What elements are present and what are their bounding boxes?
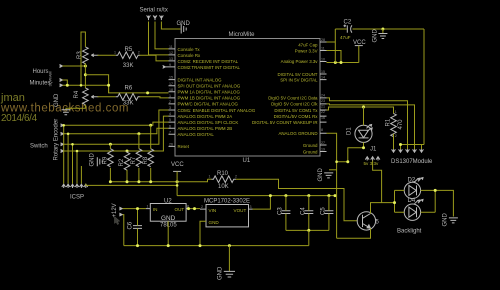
svg-text:3: 3 [169,106,171,110]
svg-text:U1: U1 [243,158,251,164]
svg-text:ANALOG GROUND: ANALOG GROUND [278,131,317,136]
svg-text:VCC: VCC [171,162,184,168]
pin switch [61,150,65,153]
svg-text:+12V: +12V [112,203,118,217]
svg-text:PWM/C DIGITAL INT ANALOG: PWM/C DIGITAL INT ANALOG [178,102,239,107]
svg-text:J1: J1 [370,147,377,153]
wire D1 cathode to gnd trunk [337,142,364,161]
wire R9 top stub [109,144,111,148]
svg-text:1: 1 [169,94,171,98]
pin Minutes [60,79,64,82]
svg-text:ANALOG DIGITAL PWM 2B: ANALOG DIGITAL PWM 2B [178,126,233,131]
svg-text:OUT: OUT [175,207,185,212]
svg-text:2: 2 [235,175,237,179]
svg-text:GND: GND [161,215,176,222]
svg-text:Minutes: Minutes [30,80,51,86]
watermark jman [0,92,129,124]
pin SQW [60,84,64,87]
U1 left pin names [178,47,256,149]
svg-text:Rotary Encoder: Rotary Encoder [54,119,60,161]
pin Hours [60,65,64,68]
svg-text:24: 24 [321,93,325,97]
svg-text:Hours: Hours [33,69,49,75]
ground symbol backlight [449,218,458,223]
svg-text:2: 2 [138,51,140,55]
U1 left pin stubs [169,49,176,146]
svg-text:1: 1 [395,110,397,114]
resistor R7 [136,149,142,167]
svg-text:Serial rx/tx: Serial rx/tx [140,8,168,14]
svg-text:33K: 33K [123,63,134,69]
svg-text:DIGITAL 5V COUNT WAKEUP IR: DIGITAL 5V COUNT WAKEUP IR [252,120,318,125]
svg-text:VOUT: VOUT [234,208,247,213]
trimmer resistor R4 [83,88,99,105]
svg-text:14: 14 [321,76,325,80]
wire resistor bottoms to VCC rail [110,168,150,182]
U1 pin numbers [169,38,325,152]
connector J serial pins [147,15,164,20]
svg-text:GND: GND [218,266,224,280]
svg-text:9: 9 [169,63,171,67]
wire U1 COM1 Tx to D1 and R1 [327,107,394,114]
svg-text:Console Tx: Console Tx [178,47,201,52]
svg-text:2014/6/4: 2014/6/4 [1,113,38,124]
svg-text:COM2: RECEIVE INT DIGITAL: COM2: RECEIVE INT DIGITAL [178,59,239,64]
wire U2 OUT to MCP VIN [190,208,200,210]
svg-text:Reset: Reset [178,144,190,149]
wire R5 to COM2 RECEIVE [140,55,169,61]
svg-text:ANALOG DIGITAL SPI CLOCK: ANALOG DIGITAL SPI CLOCK [178,120,239,125]
wire row 74.8 to riser [85,75,108,93]
svg-text:4: 4 [169,112,171,116]
wire DS1307 pin5 stub [421,145,423,150]
pin encoder C [61,143,65,146]
wire switch to U1 [64,116,169,151]
svg-text:Ground: Ground [303,143,318,148]
svg-text:1: 1 [114,51,116,55]
wire encoder B to U1 [64,128,169,134]
VCC rail left [110,179,207,182]
svg-text:R10: R10 [217,171,229,177]
wire emitter down to gnd trunk [337,228,371,238]
wire encoder A to U1 [64,122,169,125]
svg-text:28: 28 [321,38,325,42]
svg-text:18: 18 [169,88,173,92]
svg-text:470: 470 [398,119,404,130]
transistor T5 [357,212,375,230]
svg-text:DIGITAL 5V COM1 Tx: DIGITAL 5V COM1 Tx [274,108,318,113]
wire J1 riser [373,161,382,203]
svg-text:GND: GND [443,213,449,227]
svg-text:VIN: VIN [209,208,217,213]
wire MCP GND to rail [200,221,206,244]
svg-text:MCP1702-3302E: MCP1702-3302E [204,198,250,204]
svg-text:Backlight: Backlight [397,229,422,235]
U1 right pin stubs [320,42,327,152]
IC U1 MicroMite [175,32,320,164]
wire VCC rail to R10 [208,178,212,180]
svg-text:22: 22 [321,110,325,114]
wire hairpin R3 top [81,32,85,85]
wire LED cathodes to gnd [421,190,454,216]
svg-text:2: 2 [395,134,397,138]
mouse cursor [115,217,120,225]
connector DS1307 module pins [392,149,424,152]
svg-text:10K: 10K [218,184,229,190]
svg-text:15: 15 [321,70,325,74]
wire SQW row to U1 PWM1A [63,85,169,93]
svg-text:33K: 33K [123,101,134,107]
svg-text:27: 27 [321,141,325,145]
svg-text:COM1: ENABLE DIGITAL INT ANALO: COM1: ENABLE DIGITAL INT ANALOG [178,108,256,113]
svg-text:R3: R3 [77,51,83,59]
svg-text:DigIO 5V Count I2C Clk: DigIO 5V Count I2C Clk [271,102,318,107]
svg-text:DIGITAL 5V COUNT: DIGITAL 5V COUNT [277,72,317,77]
svg-text:R6: R6 [125,86,133,92]
svg-text:8: 8 [321,128,323,132]
ground pots [62,110,71,115]
svg-text:DIGITAL/5V COM1 Rx: DIGITAL/5V COM1 Rx [274,114,319,119]
svg-text:5v 3.3v: 5v 3.3v [364,161,380,166]
svg-text:17: 17 [169,82,173,86]
wire VCC top net with C2 in series [335,28,424,30]
wire VCC rail to 3.3V rail [176,182,178,196]
svg-text:DS1307Module: DS1307Module [391,159,433,165]
svg-text:6: 6 [169,124,171,128]
svg-text:D1: D1 [347,127,353,135]
wire Hours to R3 bottom [63,65,86,67]
svg-text:SPI OUT DIGITAL INT ANALOG: SPI OUT DIGITAL INT ANALOG [178,84,241,89]
svg-text:1: 1 [147,204,149,208]
svg-text:Console Rx: Console Rx [178,53,201,58]
svg-text:Analog Power 3.3v: Analog Power 3.3v [281,59,319,64]
svg-text:GND: GND [318,168,324,182]
svg-text:Ground: Ground [303,149,318,154]
ground near switch [97,157,102,166]
svg-text:47uF Cap: 47uF Cap [298,43,318,48]
svg-text:PWM 1B DIGITAL INT ANALOG: PWM 1B DIGITAL INT ANALOG [178,96,241,101]
wire serial pin2 to Console Tx [155,22,169,49]
wire MCP VOUT up to 3.3V rail [253,196,271,210]
wire encoder C to U1 [64,110,169,144]
resistor R9 [108,149,114,167]
pin encoder A [61,124,65,127]
svg-text:2: 2 [201,205,203,209]
wire R8 top stub [150,125,152,148]
wire R6 to U1 PWM1B [140,97,169,98]
svg-text:1: 1 [209,175,211,179]
wire power gnd to rail [123,215,124,246]
ground symbol analog [329,169,337,171]
wire ICSP risers [64,125,82,183]
3.3V rail [177,195,335,197]
pin flag COM2 transmit [163,66,169,69]
wire collector up to LED junction [371,203,395,214]
svg-text:COM2:TRANSMIT INT DIGITAL: COM2:TRANSMIT INT DIGITAL [178,65,241,70]
wire ICSP to VCC riser [86,184,177,186]
resistor R2 [124,151,130,170]
svg-text:SPI IN 5V DIGITAL: SPI IN 5V DIGITAL [280,77,318,82]
svg-text:11: 11 [169,45,173,49]
wire VCC top to DS1307 pin2 [401,145,425,150]
U1 right pin names [252,43,318,155]
ground symbol bottom [228,246,230,272]
svg-text:R1: R1 [385,118,391,126]
svg-text:23: 23 [321,99,325,103]
svg-text:GND: GND [209,220,220,225]
svg-text:GND: GND [373,29,379,43]
wire +12V to U2 IN [123,208,146,210]
wire caps bottom bus [286,229,329,231]
svg-text:3: 3 [250,205,252,209]
svg-text:Switch: Switch [30,144,48,150]
svg-text:47uF: 47uF [340,35,351,40]
svg-text:5: 5 [169,118,171,122]
ground rail bottom [124,245,309,247]
pin encoder B [61,132,65,135]
svg-text:SQW/AM: SQW/AM [49,72,53,87]
svg-text:GND: GND [54,93,60,107]
svg-text:MicroMite: MicroMite [229,32,256,38]
svg-text:7: 7 [169,130,171,134]
resistor R8 [148,149,154,167]
wire R3 bottom chain to R4 top [84,63,86,88]
svg-text:R7: R7 [131,156,137,164]
wire U2 GND pin to rail [167,221,169,245]
wire I2C clk to DS1307 [327,104,415,149]
svg-text:19: 19 [321,148,325,152]
ground top right [382,29,384,34]
svg-text:26: 26 [169,143,173,147]
svg-text:R2: R2 [119,158,125,166]
wire pin28 to C2 [327,29,336,63]
svg-text:10: 10 [321,58,325,62]
svg-text:21: 21 [321,105,325,109]
svg-text:ICSP: ICSP [70,195,84,201]
svg-text:C6: C6 [128,221,134,229]
svg-text:IN: IN [153,207,158,212]
svg-text:GND: GND [90,153,96,167]
svg-text:PWM 1A DIGITAL INT ANALOG: PWM 1A DIGITAL INT ANALOG [178,90,241,95]
svg-text:2: 2 [169,100,171,104]
gnd trunk from ANALOG GROUND [327,133,337,238]
wire LED anodes [395,190,405,212]
svg-text:DIGITAL INT ANALOG: DIGITAL INT ANALOG [178,77,223,82]
wire pin11 to VCC [327,51,342,63]
svg-text:R9: R9 [103,156,109,164]
wire R4 bottom to ground [66,105,85,110]
wire R4 wiper to R6 [98,96,116,98]
wire serial pin3 to GND [161,22,180,30]
wire Minutes [63,80,68,85]
svg-text:16: 16 [321,116,325,120]
wire I2C data to DS1307 [327,98,408,149]
svg-text:12: 12 [169,51,173,55]
trimmer resistor R3 [83,47,99,64]
wire R10 to transistor base [236,179,357,221]
svg-text:11: 11 [321,47,325,51]
svg-text:ANALOG DIGITAL PWM 2A: ANALOG DIGITAL PWM 2A [178,114,233,119]
junction [381,28,384,31]
wire R7 top stub [138,134,140,149]
svg-text:Power 3.3V: Power 3.3V [295,48,318,53]
wire caps bus down to gnd rail [308,230,310,245]
svg-text:R4: R4 [74,90,80,98]
svg-text:R8: R8 [143,156,149,164]
svg-text:13: 13 [169,57,173,61]
wire serial pin1 to Console Rx [149,22,169,55]
wire R3 wiper to R5 [98,54,116,56]
node top-right corner down to DS1307 [423,29,425,145]
svg-text:15: 15 [169,76,173,80]
svg-text:DigIO 5V Count I2C Data: DigIO 5V Count I2C Data [268,96,318,101]
wire R1 bottom to DS1307 pin1 [393,134,395,149]
svg-text:ANALOG DIGITAL: ANALOG DIGITAL [178,132,215,137]
